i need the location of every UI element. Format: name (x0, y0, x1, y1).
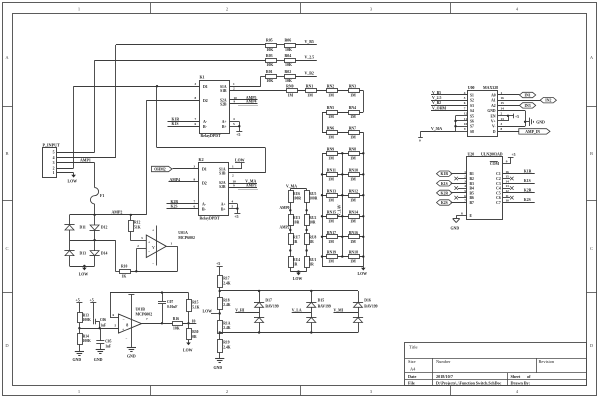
ULN B2 no-connect pin 2 (458, 178, 467, 180)
port IN2 (540, 98, 556, 103)
ground at ULN E (453, 219, 457, 223)
svg-text:B+: B+ (222, 125, 227, 129)
junction dots ladder (341, 152, 343, 154)
fuse F1 (90, 188, 98, 204)
svg-text:R03: R03 (266, 54, 273, 58)
net V_LA stub (292, 312, 312, 314)
svg-text:RN10: RN10 (349, 169, 358, 173)
wire MAX328 S7 pin 10 (456, 126, 468, 128)
resistor R12 51K (129, 221, 134, 232)
svg-text:K1S: K1S (172, 122, 179, 126)
wire P_INPUT pin3 (net AMP1) (57, 162, 95, 164)
svg-text:RN16: RN16 (349, 231, 358, 235)
svg-text:GND: GND (536, 121, 545, 125)
resistor RN19 1M (327, 255, 338, 259)
ground at C05 (100, 344, 102, 350)
wire D12 to mid rail (94, 230, 96, 240)
svg-text:1M: 1M (350, 178, 356, 182)
svg-text:RN6: RN6 (327, 126, 334, 130)
svg-text:GND: GND (73, 358, 82, 362)
wire RU chain top rail (290, 188, 306, 190)
wire R1A to bottom rail (219, 333, 221, 340)
svg-text:RN19: RN19 (327, 251, 336, 255)
relay K2 RelayDPDT (199, 163, 229, 216)
svg-text:5.1K: 5.1K (192, 305, 199, 309)
svg-text:D16: D16 (364, 299, 371, 303)
wire ULN C5 pin 12 net K2R (503, 192, 535, 194)
svg-text:Number: Number (436, 359, 451, 364)
svg-text:AMP2: AMP2 (112, 210, 123, 214)
wire RU chain left rail (290, 189, 292, 272)
wire R05-R06 (277, 44, 285, 46)
port K2R into ULN B5 pin 5 (437, 190, 453, 195)
resistor RU3 10R (289, 215, 294, 226)
svg-text:AMP4: AMP4 (170, 178, 181, 182)
svg-text:1M: 1M (350, 115, 356, 119)
svg-text:K1: K1 (200, 75, 205, 80)
svg-text:100R: 100R (293, 197, 301, 201)
svg-text:1M: 1M (288, 94, 294, 98)
svg-text:D2: D2 (202, 182, 207, 186)
wire D13 bottom (69, 256, 71, 266)
svg-text:AMP3: AMP3 (246, 183, 257, 187)
svg-text:13: 13 (501, 117, 505, 121)
title block outline (405, 343, 587, 386)
svg-text:C6: C6 (496, 196, 501, 200)
svg-text:S2B: S2B (219, 185, 226, 189)
wire MAX328 A2 pin 15 (498, 105, 520, 107)
border zone ticks left (2, 106, 13, 108)
svg-text:K1R: K1R (524, 169, 532, 173)
diode pair D17 BAV199 bottom (259, 307, 261, 317)
wire -input riser to feedback rail (110, 293, 112, 318)
svg-text:10R: 10R (309, 220, 316, 224)
svg-text:A1: A1 (491, 99, 496, 103)
ground GND right-facing (529, 118, 531, 126)
svg-text:R19: R19 (223, 341, 229, 345)
resistor RN2 1M (327, 89, 338, 93)
svg-text:10R: 10R (293, 220, 300, 224)
wire R06 to net V_B5 (295, 44, 317, 46)
svg-text:1M: 1M (328, 94, 334, 98)
resistor RU4 1R (289, 257, 294, 268)
diode pair D16 BAV199 bottom (358, 307, 360, 317)
ground at U01B (127, 347, 136, 349)
svg-text:100K: 100K (83, 318, 91, 322)
wire mid rail to R10 row (115, 240, 117, 271)
resistor R14 100K (79, 328, 81, 333)
svg-text:1M: 1M (350, 198, 356, 202)
svg-text:Size: Size (408, 359, 416, 364)
wire down to K2 S1B pin (265, 148, 267, 173)
resistor R05 (266, 44, 277, 48)
svg-text:V+: V+ (491, 120, 496, 124)
svg-text:1M: 1M (350, 219, 356, 223)
svg-text:MAX328: MAX328 (483, 86, 498, 90)
svg-text:V_2.5: V_2.5 (305, 56, 315, 60)
resistor RN3 1M (349, 89, 360, 93)
svg-text:0R: 0R (192, 335, 197, 339)
svg-text:RU2: RU2 (309, 216, 316, 220)
diode D11 (64, 224, 74, 226)
svg-text:K2S: K2S (441, 201, 448, 205)
svg-text:Revision: Revision (539, 359, 555, 364)
resistor R04 (285, 59, 296, 63)
title block column lines (432, 358, 434, 386)
wire OHM2 to K2 D1 pin 3 (173, 168, 199, 170)
wire pin3 down to fuse (94, 163, 96, 188)
wire diode bottom rail (70, 266, 95, 268)
wire R18 to node LOW (219, 309, 221, 320)
svg-text:1M: 1M (350, 94, 356, 98)
svg-text:13: 13 (506, 184, 510, 188)
wire R12 to +input (130, 231, 132, 241)
op-amp U01A MCP6002 (146, 235, 166, 258)
svg-text:LOW: LOW (293, 277, 303, 281)
driver U20 ULN2003AD (467, 157, 503, 220)
svg-text:1R: 1R (293, 240, 298, 244)
resistor RN14 1M (349, 215, 360, 219)
port IN3 (520, 103, 536, 108)
svg-text:1: 1 (78, 389, 80, 394)
diode pair D17 BAV199 top (259, 291, 261, 302)
svg-text:S1: S1 (470, 94, 474, 98)
wire fuse to AMP2 rail (94, 204, 96, 215)
svg-text:B: B (5, 151, 8, 156)
op-amp U01B MCP6002 (119, 314, 142, 333)
resistor RN8 1M (349, 152, 360, 156)
wire branch down to K2 (156, 86, 158, 147)
svg-text:B2: B2 (470, 177, 474, 181)
wire ladder right rail r3-bottom (363, 132, 365, 266)
border zone ticks top (150, 3, 152, 14)
svg-text:B+: B+ (221, 208, 226, 212)
wire diode top rail (220, 290, 358, 292)
svg-text:RN15: RN15 (327, 210, 336, 214)
svg-text:V_B5: V_B5 (432, 91, 441, 95)
svg-text:D11: D11 (80, 226, 86, 230)
wire U01B output pin 7 (142, 323, 163, 325)
svg-text:C05: C05 (105, 339, 111, 343)
svg-text:V_B5: V_B5 (305, 40, 314, 44)
wire ladder left rail r4-bottom (322, 153, 324, 266)
svg-text:C3: C3 (496, 182, 501, 186)
wire diode mid rail (70, 240, 116, 242)
wire P_INPUT pin5 to riser (57, 152, 95, 154)
svg-text:B4: B4 (470, 187, 474, 191)
svg-text:1M: 1M (307, 94, 313, 98)
svg-text:IN1: IN1 (525, 94, 531, 98)
resistor RN10 1M (349, 173, 360, 177)
wire output down (177, 246, 179, 271)
resistor RU2 10R (305, 215, 310, 226)
wire EN to V+ pin 13 (508, 116, 510, 121)
wire ULN C1 pin 16 net K1R (503, 173, 535, 175)
svg-text:S5: S5 (470, 114, 474, 118)
resistor R19 2.4K (218, 340, 223, 353)
svg-text:12: 12 (506, 189, 510, 193)
svg-text:A-: A- (202, 203, 207, 207)
resistor R1A 2.4K (218, 321, 223, 334)
wire P_INPUT pin1 stub (57, 172, 74, 174)
wire node rail to +input (79, 328, 118, 330)
svg-text:U01B: U01B (136, 307, 146, 311)
svg-text:RN0: RN0 (286, 85, 293, 89)
wire K2 A- pin 7 net K2R (167, 203, 199, 205)
svg-text:D15: D15 (318, 299, 325, 303)
svg-text:1nF: 1nF (105, 345, 112, 349)
wire K1 D2 pin 8 (146, 100, 199, 102)
ULN C6 no-connect pin 11 (503, 197, 510, 199)
svg-text:S8: S8 (470, 130, 474, 134)
svg-text:RN18: RN18 (349, 251, 358, 255)
svg-text:2.4K: 2.4K (223, 281, 230, 285)
svg-text:LOW: LOW (183, 349, 193, 353)
wire net V_2.5 to MAX328 S2 pin 5 (431, 100, 468, 102)
svg-text:1K: 1K (122, 275, 127, 279)
svg-text:1R: 1R (293, 263, 298, 267)
svg-text:LOW: LOW (68, 179, 78, 183)
svg-text:A0: A0 (491, 94, 496, 98)
svg-text:R04: R04 (285, 54, 292, 58)
svg-text:2: 2 (226, 7, 228, 12)
power +5 at K1 coil (236, 131, 242, 133)
svg-text:1M: 1M (350, 135, 356, 139)
wire K2 coil supply join (237, 204, 239, 214)
svg-text:RN5: RN5 (327, 106, 334, 110)
ULN B4 no-connect pin 4 (458, 188, 467, 190)
wire ULN C3 pin 14 net K1S (503, 183, 535, 185)
svg-text:V_2.5: V_2.5 (432, 96, 441, 100)
wire K1 S1A pin 1 (230, 86, 261, 88)
ground at R14 (79, 344, 81, 351)
svg-text:RelayDPDT: RelayDPDT (201, 134, 222, 138)
wire RN ladder row6 (322, 195, 363, 197)
svg-text:RN13: RN13 (327, 189, 336, 193)
svg-text:R16: R16 (173, 317, 180, 321)
svg-text:RN1: RN1 (306, 85, 313, 89)
svg-text:10: 10 (464, 122, 468, 126)
wire MAX328 D pin 8 (498, 131, 519, 133)
svg-text:1M: 1M (328, 115, 334, 119)
svg-text:U20: U20 (468, 152, 475, 156)
svg-text:S2: S2 (470, 99, 474, 103)
svg-text:AMP1: AMP1 (80, 158, 91, 162)
wire riser pin2 to K1 D1 net (73, 86, 75, 168)
wire net into K1 D1 pin 3 (74, 86, 200, 88)
svg-text:S3: S3 (470, 104, 474, 108)
junction K1 D1 branch (156, 85, 158, 87)
svg-text:U01A: U01A (178, 231, 188, 235)
svg-text:+: + (122, 328, 124, 332)
svg-text:RN4: RN4 (349, 106, 356, 110)
ground at R19 (219, 352, 221, 358)
svg-text:10K: 10K (266, 48, 273, 52)
wire ladder middle rail r4-r9 (342, 153, 344, 256)
svg-text:RN17: RN17 (327, 231, 336, 235)
border zone ticks bottom (150, 386, 152, 396)
connector P_INPUT (43, 148, 57, 178)
wire K1 A+ pin 4 (230, 121, 240, 123)
svg-text:GND: GND (94, 358, 103, 362)
svg-text:A+: A+ (222, 120, 227, 124)
svg-text:R18: R18 (223, 298, 229, 302)
svg-text:Drawn By:: Drawn By: (511, 380, 531, 385)
svg-text:K1R: K1R (440, 172, 448, 176)
svg-text:C2: C2 (496, 177, 501, 181)
wire diode column right upper (94, 215, 96, 225)
wire RN ladder row9 (322, 256, 363, 258)
resistor RU6 100R (289, 191, 294, 203)
svg-text:V_LA: V_LA (292, 308, 302, 312)
resistor RN17 1M (327, 235, 338, 239)
svg-text:C7: C7 (496, 201, 501, 205)
svg-text:5: 5 (53, 151, 55, 155)
port K1R into ULN B1 pin 1 (437, 171, 453, 176)
svg-text:RN12: RN12 (349, 189, 358, 193)
wire to GND symbol (525, 121, 529, 123)
wire K1 S1B pin 2 to RN ladder (230, 90, 287, 92)
resistor R03 (266, 59, 277, 63)
resistor RU7 1R (289, 234, 294, 245)
svg-text:RU5: RU5 (309, 192, 316, 196)
svg-text:8: 8 (126, 322, 128, 327)
wire K2 S1B pin 2 (229, 172, 266, 174)
svg-text:S1B: S1B (219, 172, 226, 176)
wire U01A output pin 1 (166, 246, 177, 248)
wire K2 S2A pin 10 net V_MA (229, 183, 258, 185)
svg-text:GND: GND (127, 354, 136, 358)
ULN C4 no-connect pin 13 (503, 188, 510, 190)
svg-text:V_B2: V_B2 (305, 71, 314, 75)
resistor RN16 1M (349, 235, 360, 239)
svg-text:R30: R30 (192, 330, 198, 334)
op-amp U01B supply bar (131, 295, 133, 349)
resistor RN5 1M (327, 111, 338, 115)
svg-text:10K: 10K (266, 63, 273, 67)
wire net V_B2 to MAX328 S3 pin 6 (431, 105, 468, 107)
resistor R30 0R (188, 323, 190, 329)
title block row lines (405, 358, 587, 360)
wire AMP2 rail (70, 214, 147, 216)
wire net V_OHM to MAX328 S4 pin 7 (431, 110, 468, 112)
wire K1 pin1 riser to row V_B2 (260, 76, 262, 86)
wire R13 to node (79, 323, 81, 328)
svg-text:1M: 1M (328, 240, 334, 244)
wire net V_B5 to MAX328 S1 pin 4 (431, 94, 468, 96)
svg-text:B5: B5 (470, 191, 474, 195)
svg-text:GND: GND (214, 366, 223, 370)
wire K1 A- pin 7 net K1R (168, 121, 200, 123)
svg-text:16: 16 (506, 170, 510, 174)
resistor R16 10K on output (162, 323, 196, 325)
svg-text:D:\Projects\..\Function Switch: D:\Projects\..\Function Switch.SchDoc (436, 380, 501, 385)
svg-text:C: C (5, 246, 8, 251)
wire net V_50A to S rail (421, 131, 456, 133)
svg-text:K2S: K2S (524, 198, 531, 202)
svg-text:D: D (493, 130, 496, 134)
wire R03-R04 (277, 60, 285, 62)
wire RN ladder row5 (322, 174, 363, 176)
svg-text:C06: C06 (100, 318, 106, 322)
resistor RN9 1M (327, 152, 338, 156)
svg-text:Date: Date (408, 374, 417, 379)
resistor RN13 1M (327, 194, 338, 198)
svg-text:C5: C5 (496, 191, 501, 195)
diode D12 (90, 225, 99, 230)
op-amp U01A supply bar (156, 226, 158, 266)
svg-text:K2R: K2R (171, 200, 179, 204)
svg-text:LOW: LOW (358, 272, 368, 276)
resistor RN6 1M (327, 131, 338, 135)
svg-text:1M: 1M (328, 135, 334, 139)
svg-text:IN3: IN3 (525, 104, 531, 108)
svg-text:D2: D2 (203, 99, 208, 103)
wire RU chain right rail (306, 189, 308, 272)
svg-text:+5: +5 (76, 297, 80, 302)
svg-text:+5: +5 (512, 153, 516, 157)
svg-text:Title: Title (409, 345, 418, 350)
wire MAX328 EN pin 2 (498, 115, 508, 117)
wire ULN C7 pin 10 net K2S (503, 202, 535, 204)
diode D13 (64, 250, 74, 252)
resistor R10 1K (120, 270, 131, 274)
svg-text:12: 12 (464, 112, 468, 116)
svg-text:of: of (527, 374, 531, 379)
ULN C2 no-connect pin 15 (503, 178, 510, 180)
svg-text:R10: R10 (121, 264, 128, 268)
svg-text:D14: D14 (101, 252, 108, 256)
svg-text:S7: S7 (470, 125, 474, 129)
svg-text:A+: A+ (221, 203, 226, 207)
svg-text:GND: GND (451, 226, 460, 230)
svg-text:1R: 1R (309, 240, 314, 244)
svg-text:C07: C07 (167, 300, 173, 304)
wire -input riser (136, 249, 138, 271)
resistor RN12 1M (349, 194, 360, 198)
svg-text:R06: R06 (285, 39, 292, 43)
wire ladder right rail r1-r2 (363, 91, 365, 113)
svg-text:BAV199: BAV199 (265, 304, 278, 308)
svg-text:AMP4: AMP4 (246, 99, 257, 103)
svg-text:AMP_IN: AMP_IN (525, 130, 540, 134)
resistor RN15 1M (327, 215, 338, 219)
wire P_INPUT pin4 to riser (57, 157, 116, 159)
wire D14 top (94, 240, 96, 251)
svg-text:2.4K: 2.4K (223, 303, 230, 307)
svg-text:A-: A- (203, 120, 208, 124)
wire GND net down (525, 111, 527, 127)
wire K2 A+ pin 4 (229, 203, 238, 205)
svg-text:B3: B3 (470, 182, 474, 186)
svg-text:−: − (123, 317, 125, 321)
svg-text:R15: R15 (192, 301, 198, 305)
svg-text:1R: 1R (309, 263, 314, 267)
svg-text:R12: R12 (134, 221, 141, 225)
svg-text:+: + (152, 229, 154, 233)
svg-text:14: 14 (506, 179, 510, 183)
port IN1 (520, 92, 536, 97)
svg-text:RU1: RU1 (309, 258, 316, 262)
svg-text:V_1AV: V_1AV (338, 204, 342, 216)
svg-text:+5: +5 (216, 261, 220, 266)
svg-text:S4: S4 (470, 109, 474, 113)
wire MAX328 V- pin 3 (498, 126, 525, 128)
svg-text:R02: R02 (285, 70, 292, 74)
wire diode column left upper (69, 215, 71, 225)
wire K1 B- pin 6 net K1S (168, 126, 200, 128)
svg-text:10K: 10K (266, 79, 273, 83)
